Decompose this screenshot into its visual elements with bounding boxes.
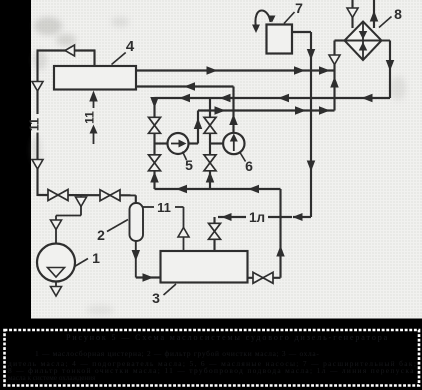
svg-text:Рисунок 5 — Схема маслосистемы: Рисунок 5 — Схема маслосистемы судового …: [66, 333, 389, 342]
svg-text:6: 6: [245, 158, 253, 174]
svg-text:1 — маслосборная цистерна; 2 —: 1 — маслосборная цистерна; 2 — фильтр гр…: [35, 349, 320, 358]
svg-text:1: 1: [92, 250, 100, 266]
svg-text:3: 3: [152, 290, 160, 306]
svg-text:4: 4: [126, 38, 135, 55]
svg-text:7: 7: [295, 0, 303, 16]
svg-text:масла к системе охлаждения: масла к системе охлаждения: [8, 374, 96, 382]
svg-text:11: 11: [28, 118, 42, 131]
svg-text:11: 11: [83, 111, 97, 124]
svg-text:11: 11: [157, 200, 171, 215]
svg-text:2: 2: [97, 227, 105, 243]
svg-text:1л: 1л: [249, 210, 265, 225]
svg-text:8: 8: [394, 6, 402, 22]
